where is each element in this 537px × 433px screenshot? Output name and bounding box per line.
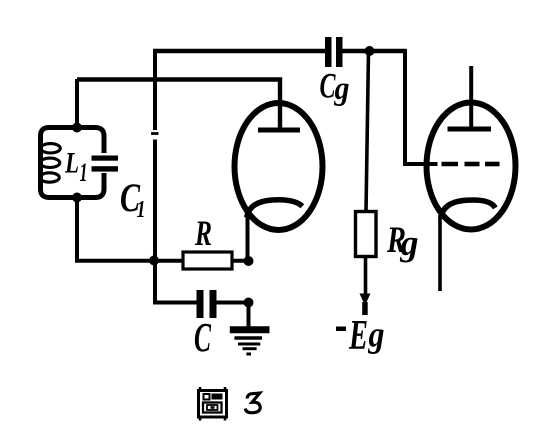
junction dot C1/R node <box>149 256 159 266</box>
wire V2 cathode lead <box>438 215 442 291</box>
wire capacitor C to ground node <box>217 301 251 305</box>
V1 cathode arc <box>247 200 302 218</box>
V2 top cap bar <box>448 127 492 132</box>
label -Eg <box>336 327 346 332</box>
wire from Cg to junction <box>342 49 406 53</box>
svg-text:1: 1 <box>137 197 146 223</box>
wire C1 line corner to capacitor C <box>155 300 197 303</box>
svg-text:E: E <box>348 313 368 359</box>
arrow to -Eg <box>360 294 371 306</box>
resistor R body <box>183 252 232 269</box>
svg-text:g: g <box>368 315 385 355</box>
ground symbol <box>230 302 270 354</box>
resistor Rg body <box>356 212 377 257</box>
V2 top cap stub <box>469 66 473 127</box>
wire tank bottom down and right to R <box>77 198 183 261</box>
junction dot ground node <box>244 298 254 308</box>
tube V2 envelope <box>427 103 516 230</box>
svg-text:g: g <box>334 71 350 107</box>
junction dot tank top <box>72 123 82 133</box>
capacitor in tank (plates) <box>92 156 119 172</box>
tube V1 envelope <box>235 103 323 230</box>
caption digit 3 <box>245 393 260 413</box>
wire from tank top up to grid rail <box>75 79 79 127</box>
svg-text:1: 1 <box>80 158 88 187</box>
svg-text:R: R <box>194 213 212 253</box>
svg-text:g: g <box>400 223 419 263</box>
wire Rg down to arrow <box>364 257 368 295</box>
junction dot tank bottom <box>72 193 82 203</box>
wire C1 vertical lower segment <box>153 140 157 303</box>
inductor L1 coil loops <box>41 144 61 153</box>
svg-text:L: L <box>64 147 79 180</box>
V2 grid dashes <box>442 162 459 167</box>
V1 top cap bar <box>258 128 300 133</box>
tank loop L1/Cap frame <box>41 128 105 198</box>
wire C1 vertical upper segment <box>153 49 157 130</box>
V2 cathode arc <box>441 200 496 218</box>
capacitor Cg <box>325 37 343 67</box>
caption character 圖 <box>199 387 227 421</box>
wire R to cathode node <box>232 259 250 263</box>
junction dot at Cg output node <box>365 46 375 56</box>
junction dot cathode node <box>244 256 254 266</box>
capacitor C1 plates <box>151 132 159 135</box>
wire junction to Rg <box>366 51 369 211</box>
wire top rail from C1 line to Cg <box>153 49 327 53</box>
capacitor C plates <box>197 290 217 318</box>
wire V1 cathode lead <box>246 213 250 261</box>
wire grid rail y=79 to V1 top cap <box>77 80 280 129</box>
wire down-right to V2 grid <box>405 49 438 164</box>
svg-text:C: C <box>194 314 211 360</box>
